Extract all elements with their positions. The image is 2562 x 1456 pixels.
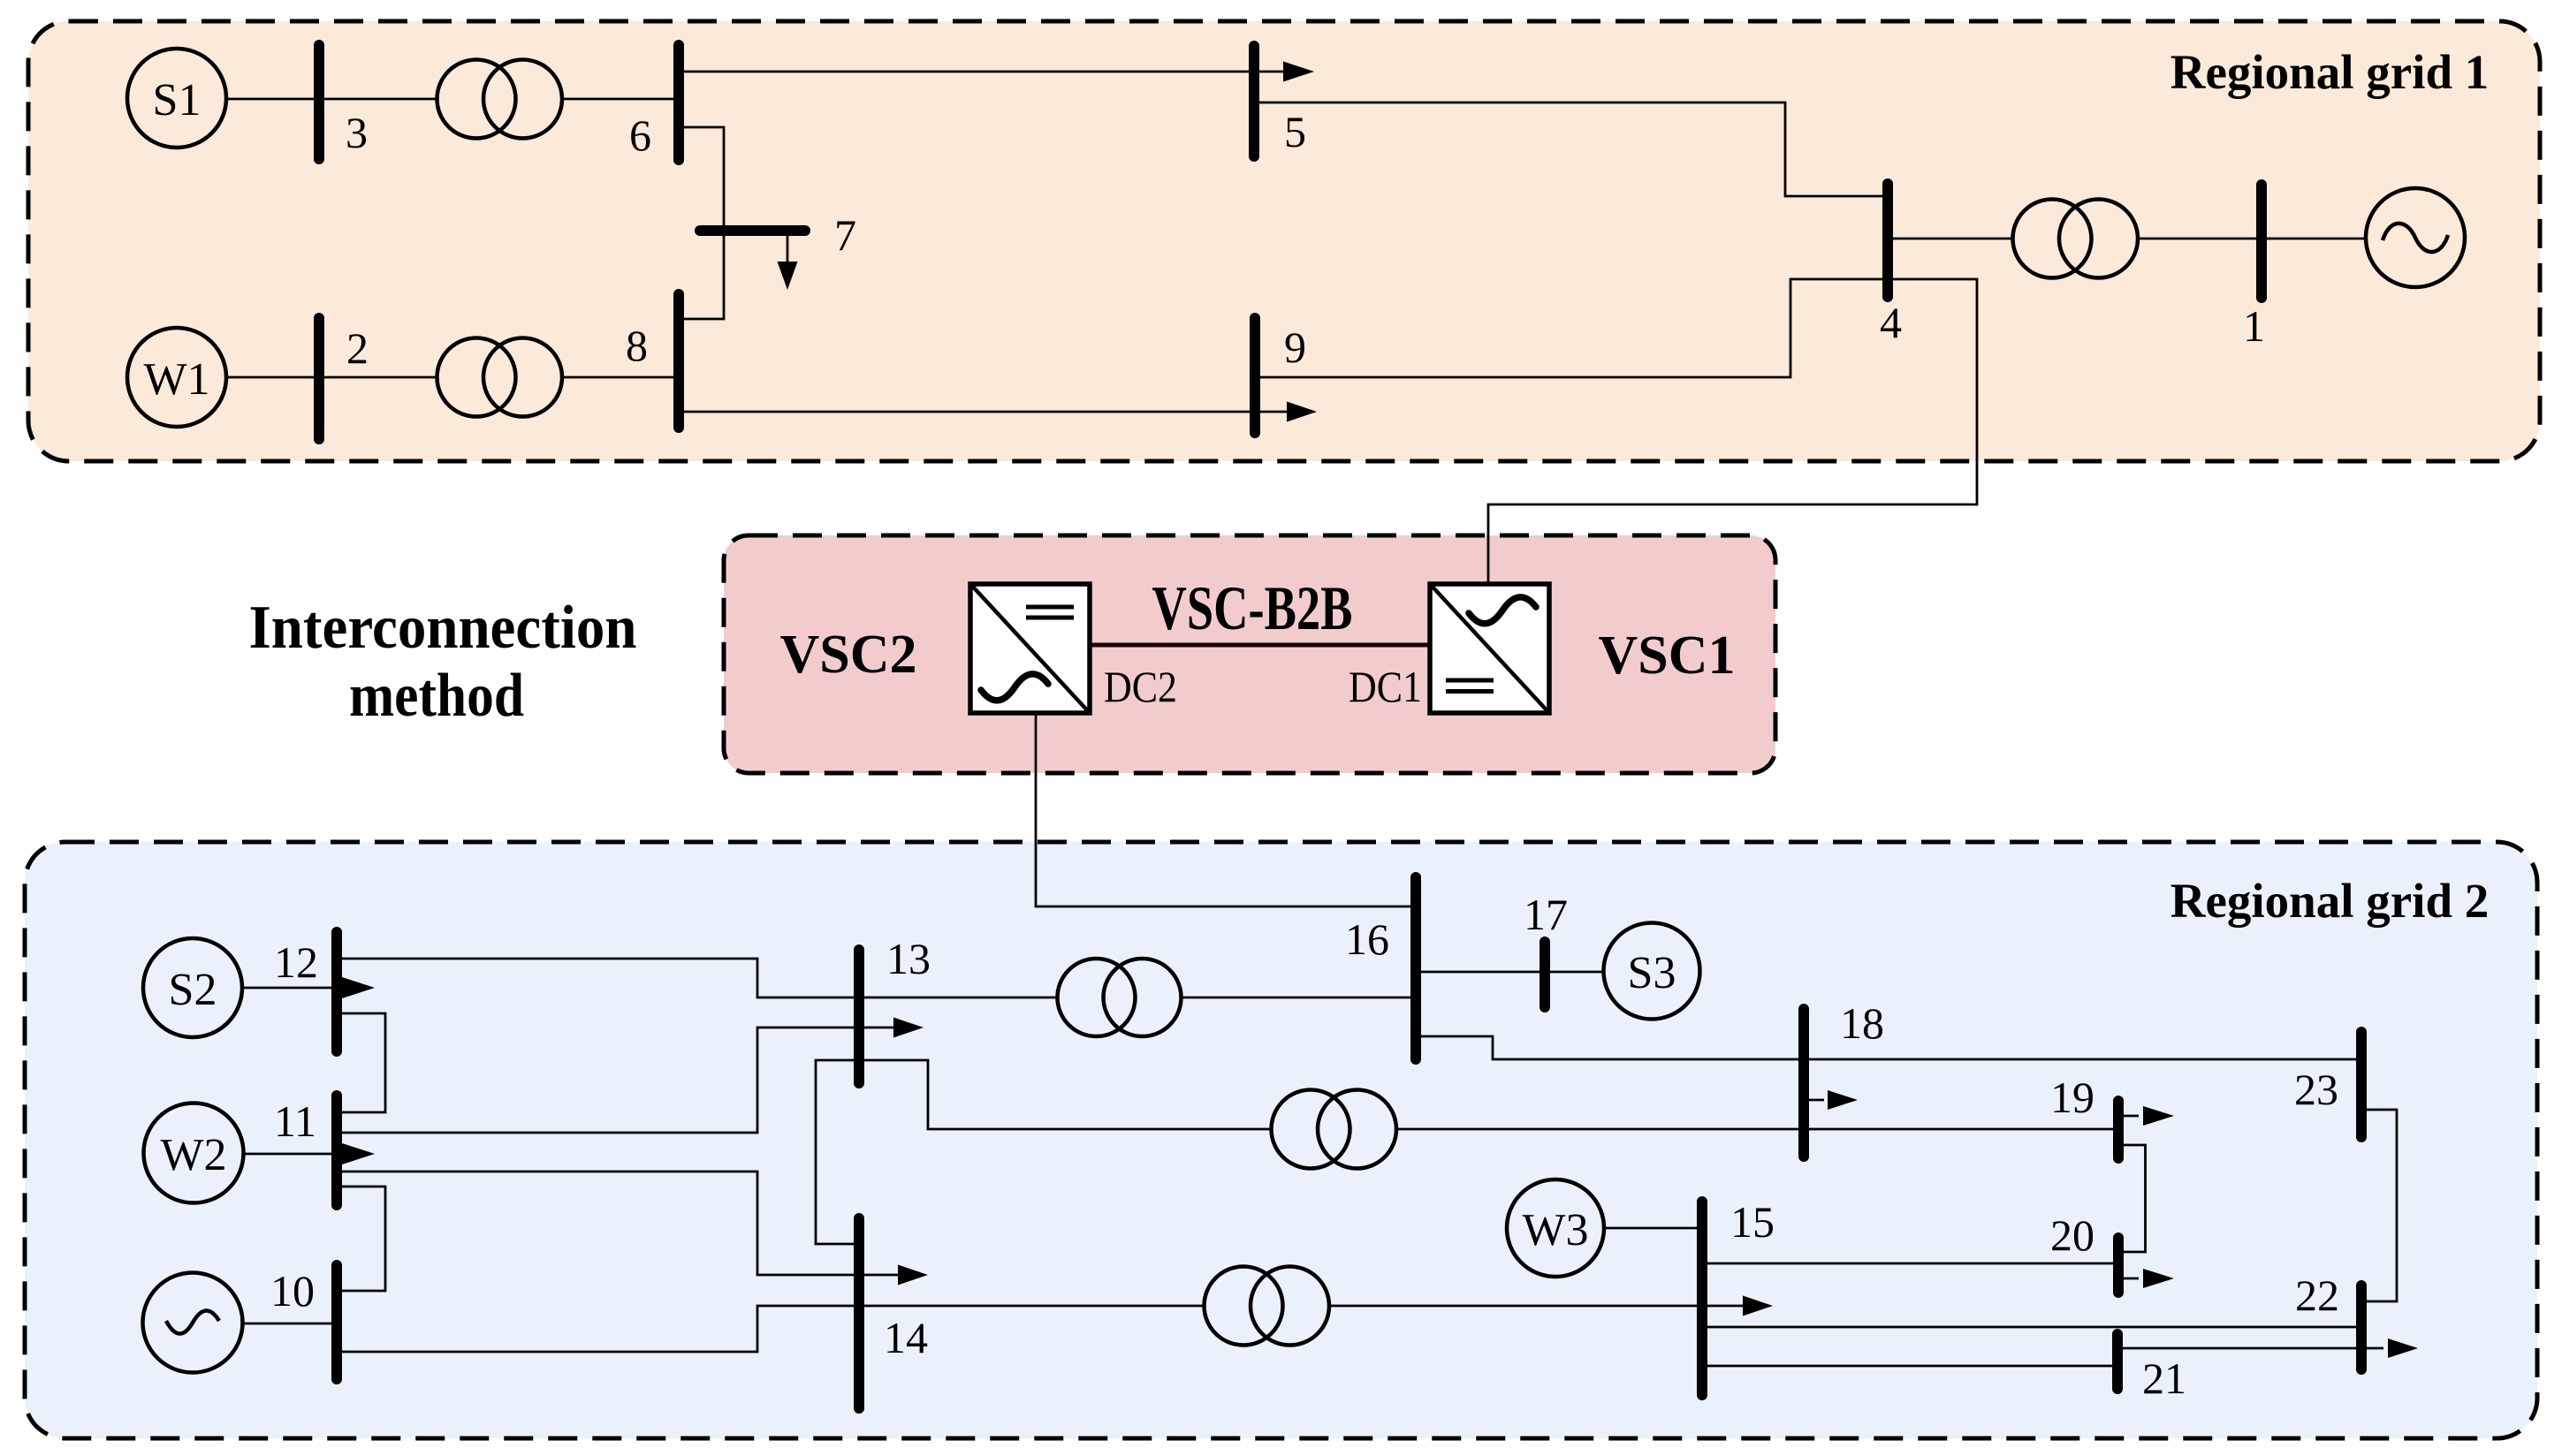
svg-text:16: 16: [1345, 914, 1389, 964]
svg-text:2: 2: [346, 323, 369, 373]
svg-text:8: 8: [626, 321, 648, 370]
svg-text:10: 10: [270, 1266, 315, 1316]
svg-text:DC2: DC2: [1104, 662, 1177, 711]
svg-text:Regional grid 2: Regional grid 2: [2170, 874, 2490, 928]
svg-text:9: 9: [1284, 322, 1306, 372]
svg-text:Regional grid 1: Regional grid 1: [2170, 45, 2490, 99]
svg-text:15: 15: [1730, 1197, 1775, 1247]
svg-text:22: 22: [2295, 1270, 2339, 1320]
svg-text:S3: S3: [1628, 948, 1676, 998]
svg-text:S2: S2: [169, 965, 217, 1015]
svg-text:19: 19: [2050, 1073, 2094, 1122]
svg-text:Interconnection: Interconnection: [249, 594, 637, 662]
svg-text:VSC-B2B: VSC-B2B: [1152, 574, 1353, 643]
svg-text:7: 7: [834, 210, 856, 260]
svg-text:12: 12: [274, 937, 318, 987]
svg-text:6: 6: [629, 110, 651, 160]
svg-text:S1: S1: [153, 75, 201, 125]
svg-text:20: 20: [2050, 1210, 2094, 1260]
svg-text:DC1: DC1: [1349, 662, 1422, 711]
svg-text:21: 21: [2142, 1354, 2186, 1403]
svg-text:4: 4: [1880, 298, 1902, 347]
svg-text:13: 13: [886, 934, 931, 983]
svg-text:method: method: [349, 662, 524, 730]
svg-text:18: 18: [1840, 998, 1884, 1048]
svg-text:W1: W1: [143, 354, 209, 405]
svg-text:5: 5: [1284, 107, 1306, 156]
svg-text:VSC1: VSC1: [1598, 626, 1735, 686]
svg-text:W2: W2: [160, 1130, 226, 1180]
svg-text:W3: W3: [1522, 1205, 1588, 1255]
svg-text:VSC2: VSC2: [779, 625, 916, 685]
svg-text:14: 14: [884, 1313, 928, 1362]
svg-text:23: 23: [2294, 1065, 2338, 1114]
svg-text:11: 11: [274, 1096, 316, 1146]
svg-text:1: 1: [2243, 301, 2265, 351]
svg-text:3: 3: [346, 108, 368, 157]
svg-text:17: 17: [1524, 890, 1568, 939]
